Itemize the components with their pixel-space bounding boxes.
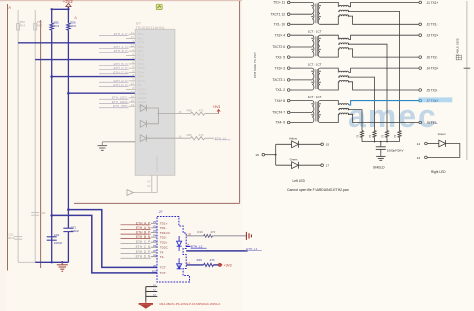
svg-text:J2 TX1-: J2 TX1- — [427, 23, 438, 27]
ground shield net — [376, 155, 385, 157]
svg-text:NC: NC — [147, 185, 151, 188]
wire B to connector TCT — [52, 215, 157, 273]
ghost wire net2 vertical — [34, 10, 36, 262]
wire ETH_D pair to U1 — [68, 92, 135, 94]
svg-text:TX1+ 11: TX1+ 11 — [273, 1, 285, 5]
svg-text:1000pF/2KV: 1000pF/2KV — [387, 148, 404, 152]
resistor R56 49.9 — [67, 23, 70, 30]
pin 12 net label — [99, 86, 129, 88]
transformer T3 secondary winding — [318, 68, 320, 90]
choke L2 winding 1 — [339, 38, 349, 39]
frame inner vertical — [40, 20, 42, 268]
ground at U1 — [101, 142, 103, 146]
svg-text:ETH_C_N: ETH_C_N — [113, 70, 127, 74]
svg-text:TX1- 10: TX1- 10 — [274, 23, 286, 27]
svg-text:TX3- 2: TX3- 2 — [275, 88, 285, 92]
svg-text:100nF: 100nF — [7, 236, 15, 240]
svg-text:Green: Green — [290, 157, 298, 161]
wire +3V2 stem — [67, 7, 69, 10]
pin 0 net label — [99, 35, 129, 37]
svg-text:16: 16 — [255, 153, 259, 157]
choke L3 winding 1 — [339, 71, 349, 72]
pin 9 net label — [99, 73, 129, 75]
svg-text:470: 470 — [199, 133, 204, 137]
svg-text:J4 TX3+: J4 TX3+ — [427, 67, 439, 71]
IC internal LED D1 — [140, 105, 146, 112]
connector pin J4 TX3+ — [419, 67, 422, 70]
svg-text:TXCT1 12: TXCT1 12 — [270, 12, 285, 16]
wire T4 secondary bottom to choke — [320, 114, 338, 122]
wire choke L3 output top — [349, 68, 419, 72]
diode green right — [427, 143, 438, 145]
svg-text:ETH_A_P: ETH_A_P — [114, 32, 128, 36]
resistor 75 ohm 1 — [360, 131, 363, 138]
svg-text:TXCT2 6: TXCT2 6 — [272, 45, 285, 49]
wire T2 secondary bottom to choke — [320, 49, 338, 57]
wire top rail — [52, 8, 69, 10]
wire ETH_B pair to U1 — [35, 59, 135, 61]
svg-text:TXCT3 1: TXCT3 1 — [272, 78, 285, 82]
connector pin J1 TX1+ — [419, 1, 422, 4]
svg-text:TD1C4: TD1C4 — [160, 231, 170, 235]
wire T3 secondary top to choke — [320, 68, 338, 72]
resistor 75 ohm 3 — [385, 131, 388, 138]
resistor R16 470 — [204, 234, 213, 237]
svg-text:Left LED: Left LED — [293, 179, 306, 183]
ghost wire net1 vertical — [17, 10, 19, 262]
power +3V3 at connector — [219, 263, 223, 267]
junction node D — [67, 92, 70, 95]
svg-text:M12-08AX1-PS-1XM1-P-L5-M3516AC: M12-08AX1-PS-1XM1-P-L5-M3516AC-W151-K — [160, 302, 221, 306]
svg-text:J8 TX4-: J8 TX4- — [427, 121, 438, 125]
wire T2 secondary top to choke — [320, 35, 338, 39]
svg-text:TCT: TCT — [160, 266, 166, 270]
svg-text:J6 TX2-: J6 TX2- — [427, 56, 438, 60]
wire choke L2 center tap drop — [349, 44, 387, 130]
svg-text:J?: J? — [159, 210, 163, 214]
resistor R95 470 — [191, 137, 205, 140]
IC LED loop wire — [147, 108, 159, 124]
connector pin J2 TX1- — [419, 23, 422, 26]
wire T4 secondary top to choke — [320, 101, 338, 105]
choke L2 winding 2 — [339, 43, 349, 44]
connector pin J8 TX4- — [419, 121, 422, 124]
svg-text:HR911105A: HR911105A — [155, 156, 159, 172]
junction node wireA — [67, 208, 70, 211]
junction top rail — [51, 8, 53, 10]
svg-text:470: 470 — [199, 109, 204, 113]
wire ETH_L1 — [186, 250, 247, 252]
svg-text:J1 TX1+: J1 TX1+ — [427, 1, 439, 5]
wire choke L1 center tap drop — [349, 11, 400, 130]
svg-text:49.9: 49.9 — [20, 24, 26, 28]
wire choke L2 output bottom — [349, 49, 419, 57]
IC internal LED D3 — [140, 135, 146, 142]
capacitor C91 100nF — [51, 235, 53, 237]
connector pin J5 TX3- — [419, 89, 422, 92]
pin 7 net label — [99, 64, 129, 66]
svg-text:470: 470 — [210, 258, 215, 262]
svg-text:CABLE SIDE: CABLE SIDE — [456, 38, 460, 56]
svg-text:ETH_SHD: ETH_SHD — [113, 104, 128, 108]
choke L3 winding 3 — [339, 80, 349, 81]
pin 1 net label — [126, 37, 135, 39]
choke L4 winding 1 — [339, 104, 349, 105]
transformer T3 primary winding — [312, 68, 314, 90]
connector pin J3 TX2+ — [419, 34, 422, 37]
choke L1 winding 3 — [339, 15, 349, 16]
svg-text:TD2-: TD2- — [160, 235, 167, 239]
svg-text:TD1+: TD1+ — [160, 222, 168, 226]
IC internal LED D2 — [140, 120, 146, 127]
svg-text:U?: U? — [136, 21, 141, 25]
svg-text:T4: T4 — [160, 250, 164, 254]
svg-text:49.9: 49.9 — [37, 24, 43, 28]
wire choke L4 output top — [349, 101, 419, 105]
svg-text:A: A — [74, 15, 77, 20]
svg-text:TD1-: TD1- — [160, 226, 167, 230]
wire R95 to net ETH_L2 — [205, 137, 214, 139]
transformer T3 core — [315, 69, 317, 89]
svg-text:R16: R16 — [197, 230, 203, 234]
svg-text:C91: C91 — [54, 233, 60, 237]
wire shield rail — [362, 141, 400, 143]
diode yellow — [276, 143, 292, 145]
wire LED row 1 — [186, 235, 203, 237]
svg-text:13: 13 — [417, 156, 421, 160]
chassis ground symbol — [245, 232, 247, 240]
choke L1 winding 1 — [339, 5, 349, 6]
svg-text:1CT : 1CT: 1CT : 1CT — [308, 30, 322, 34]
svg-text:TX4- 9: TX4- 9 — [275, 121, 285, 125]
svg-text:NC: NC — [147, 180, 151, 183]
svg-text:TX3+ 3: TX3+ 3 — [275, 66, 286, 70]
svg-text:ETH_B_P: ETH_B_P — [114, 49, 128, 53]
wire choke L3 output bottom — [349, 82, 419, 90]
svg-text:TD2+: TD2+ — [160, 240, 168, 244]
svg-text:Green: Green — [438, 132, 446, 136]
pin 15 — [321, 143, 324, 146]
transformer T4 core — [315, 102, 317, 122]
svg-text:TX2- 5: TX2- 5 — [275, 55, 285, 59]
pin 4 net label — [99, 52, 129, 54]
highlight selected net J7 — [418, 97, 452, 102]
wire R96 to +3V3 — [205, 113, 219, 115]
ground GND1 — [61, 262, 63, 264]
U1 NC stub 1 — [151, 175, 153, 192]
svg-text:1CT : 1CT: 1CT : 1CT — [308, 63, 322, 67]
svg-text:1CT : 1CT: 1CT : 1CT — [308, 95, 322, 99]
svg-text:R95: R95 — [187, 133, 193, 137]
connector mount stub X1 — [146, 286, 158, 288]
pin 13 — [425, 156, 428, 159]
svg-text:49.9: 49.9 — [70, 24, 76, 28]
wire R16 to chassis — [212, 235, 246, 237]
resistor R19 470 — [204, 263, 214, 266]
wire TX center vertical 1 — [51, 9, 53, 23]
net label ETH_L2 stub — [186, 245, 190, 247]
svg-text:SHIELD: SHIELD — [373, 166, 385, 170]
pin 5 net label — [126, 54, 135, 56]
svg-text:T4-: T4- — [160, 255, 165, 259]
sheet top border — [0, 0, 242, 2]
tiny legend mark — [456, 55, 461, 60]
resistor R96 470 — [191, 112, 205, 115]
transformer T2 secondary winding — [318, 35, 320, 57]
pin 16 net label — [99, 102, 129, 104]
choke L3 winding 2 — [339, 76, 349, 77]
svg-text:J7 TX4+: J7 TX4+ — [427, 99, 439, 103]
resistor 75 ohm 2 — [373, 131, 376, 138]
svg-text:100nF: 100nF — [71, 229, 80, 233]
wire choke L4 output bottom — [349, 114, 419, 122]
svg-text:TX2+ 4: TX2+ 4 — [275, 33, 286, 37]
svg-text:amec: amec — [348, 98, 438, 134]
wire LED3 to R95 — [147, 137, 191, 139]
choke L4 winding 2 — [339, 108, 349, 109]
transformer T2 primary winding — [312, 35, 314, 57]
capacitor C10 1000pF/2KV — [376, 146, 386, 148]
junction ground rail — [51, 261, 53, 263]
wire T1 secondary bottom to choke — [320, 16, 338, 24]
svg-text:C52: C52 — [40, 211, 46, 215]
ghost capacitor C52 — [31, 212, 39, 214]
wire ETH_C pair to U1 — [52, 76, 136, 78]
choke L4 winding 3 — [339, 113, 349, 114]
svg-text:Cannot open file F:\ARDUINO-ET: Cannot open file F:\ARDUINO-ETH2.pan — [287, 188, 349, 192]
wire LED1 to R96 — [158, 113, 190, 115]
choke L1 winding 2 — [339, 10, 349, 11]
section divider right — [466, 1, 468, 160]
frame right border — [239, 1, 241, 203]
wire T3 secondary bottom to choke — [320, 82, 338, 90]
transformer T1 primary winding — [312, 2, 314, 24]
connector mount stub X2 — [146, 291, 158, 293]
svg-text:(2): (2) — [188, 234, 191, 236]
svg-text:17: 17 — [326, 164, 330, 168]
U1 NC stub 2 — [156, 175, 158, 192]
wire ground rail — [18, 261, 35, 263]
junction node wireB — [50, 214, 53, 217]
wire ETH_A pair to U1 — [18, 42, 135, 44]
svg-text:TRJG0011AHNL: TRJG0011AHNL — [136, 26, 165, 30]
svg-text:100nF: 100nF — [54, 241, 63, 245]
svg-text:Yellow: Yellow — [289, 136, 298, 140]
svg-text:J5 TX3-: J5 TX3- — [427, 88, 438, 92]
pin 3 net label — [99, 47, 129, 49]
ground shield GND2 — [139, 303, 153, 305]
wire R19 to +3V3 — [213, 264, 219, 266]
pin 15 net label — [99, 98, 129, 100]
wire mount common — [145, 287, 147, 302]
svg-text:TX4+ 8: TX4+ 8 — [275, 99, 286, 103]
capacitor C71 100nF — [63, 227, 73, 229]
pin 13 net label — [126, 88, 135, 90]
svg-text:+3V3: +3V3 — [213, 105, 221, 109]
connector mount stub X3 — [146, 295, 158, 297]
svg-text:TXCT4 7: TXCT4 7 — [272, 111, 285, 115]
svg-text:ETH_D_N: ETH_D_N — [113, 83, 127, 87]
frame left border — [7, 4, 9, 271]
wire LED row 2 — [186, 264, 203, 266]
svg-text:A: A — [8, 5, 11, 10]
pin 17 — [321, 164, 324, 167]
svg-text:PCB SIDE TO PHY: PCB SIDE TO PHY — [253, 52, 257, 78]
wire TX center vertical 2 — [67, 7, 69, 24]
svg-text:Right LED: Right LED — [431, 170, 446, 174]
connector pin J7 TX4+ — [419, 99, 422, 102]
svg-text:49.9: 49.9 — [54, 24, 60, 28]
transformer T1 core — [315, 3, 317, 23]
pin 17 net label — [99, 107, 129, 109]
wire shield stem — [380, 142, 382, 147]
wire choke L4 center tap drop — [349, 110, 362, 131]
junction node C — [50, 75, 53, 78]
connector internal LED A — [177, 241, 182, 246]
svg-text:R19: R19 — [197, 258, 203, 262]
wire cap to ground — [380, 149, 382, 156]
power +3V2 symbol — [66, 3, 71, 6]
transformer T2 core — [315, 36, 317, 56]
svg-text:+3V3: +3V3 — [224, 263, 232, 267]
no-connect arrow symbol — [127, 190, 133, 196]
connector pin J6 TX2- — [419, 56, 422, 59]
svg-text:J3 TX2+: J3 TX2+ — [427, 34, 439, 38]
transformer T1 secondary winding — [318, 2, 320, 24]
resistor R55 49.9 — [50, 23, 53, 30]
svg-text:R96: R96 — [187, 109, 193, 113]
svg-text:P10: P10 — [152, 271, 157, 274]
svg-text:TCT: TCT — [160, 271, 166, 275]
marker icon — [156, 4, 162, 9]
wire pin16 to LEDs — [265, 154, 276, 156]
connector J1 outline — [157, 217, 190, 283]
wire right LED loop — [427, 144, 459, 158]
frame bottom border — [74, 202, 240, 204]
diode green left — [276, 164, 292, 166]
pin 8 net label — [99, 69, 129, 71]
svg-text:470: 470 — [210, 230, 215, 234]
connector internal LED B — [177, 264, 182, 269]
wire NC to arrow — [133, 192, 157, 194]
wire choke L1 output top — [349, 2, 419, 6]
wire choke L1 output bottom — [349, 16, 419, 24]
wire A to connector TCT — [68, 210, 157, 268]
svg-text:TD2C: TD2C — [160, 245, 169, 249]
wire U1 ground pin — [102, 141, 135, 143]
wire T1 secondary top to choke — [320, 2, 338, 6]
pin 11 net label — [99, 81, 129, 83]
svg-text:14: 14 — [417, 142, 421, 146]
resistor 75 ohm 4 — [398, 131, 401, 138]
ghost capacitor C51 — [14, 236, 22, 238]
bus tick — [464, 67, 471, 69]
wire choke L3 center tap drop — [349, 77, 375, 131]
choke L2 winding 3 — [339, 48, 349, 49]
transformer T4 secondary winding — [318, 101, 320, 123]
wire choke L2 output top — [349, 35, 419, 39]
svg-text:15: 15 — [326, 143, 330, 147]
IC U1 body — [135, 29, 175, 175]
transformer T4 primary winding — [312, 101, 314, 123]
